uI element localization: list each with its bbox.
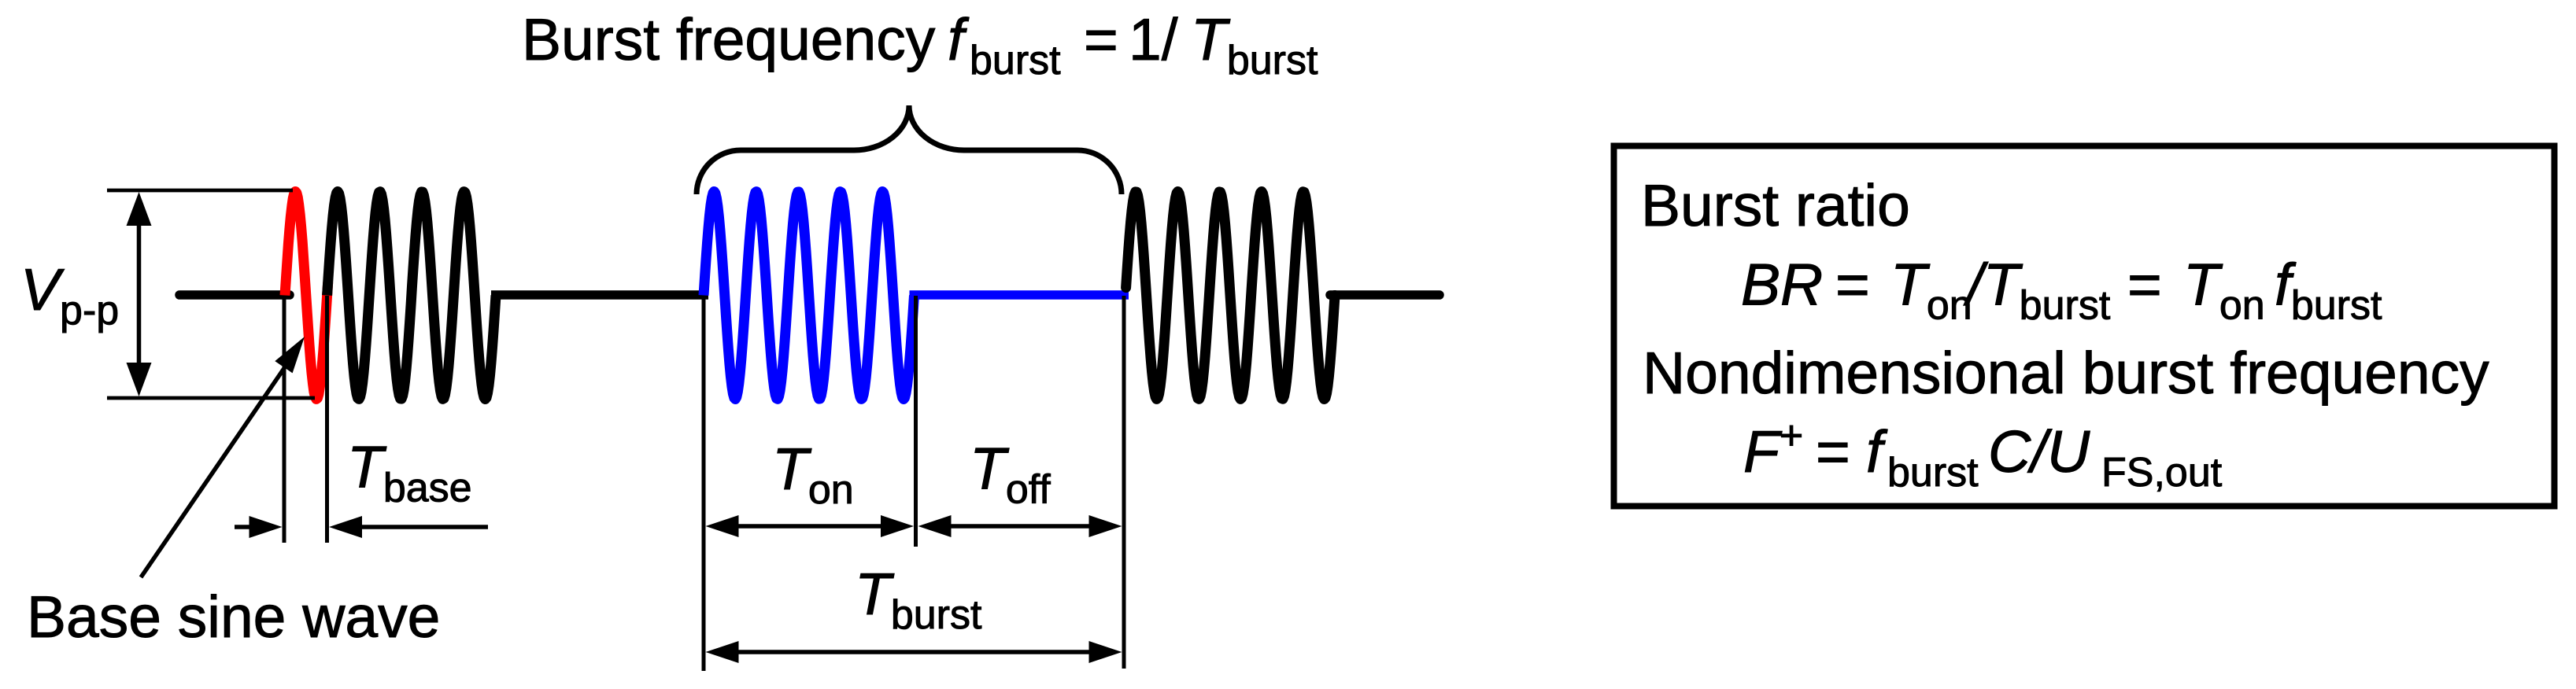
Base sine wave pointer arrow [141, 360, 290, 577]
T_off double arrow [944, 524, 1096, 529]
wire: blue baseline segment (T_off) [910, 290, 1129, 300]
formula box [1614, 146, 2555, 507]
svg-text:Burst frequencyfburst=1/Tburst: Burst frequencyfburst=1/Tburst [522, 6, 1318, 83]
svg-text:Base sine wave: Base sine wave [27, 584, 440, 650]
wire: T_on left extension line (burst 2 start) [702, 296, 706, 671]
wire: baseline segment between burst 1 and burst 2 [491, 290, 708, 300]
node: red base sine wave cycle (first cycle of burst 1) [285, 192, 328, 400]
node: blue burst 2 (5 cycles, T_on) [704, 192, 915, 400]
node: black burst 3 (5 cycles) [1126, 192, 1335, 400]
wire: baseline segment before first burst [179, 290, 290, 300]
T_on double arrow [732, 524, 888, 529]
wire: T_base left extension line [283, 296, 286, 543]
node: black remainder of burst 1 (4 cycles) [327, 192, 496, 400]
wire: T_on/T_off middle extension line [914, 296, 918, 547]
svg-text:Nondimensional burst frequency: Nondimensional burst frequency [1643, 340, 2489, 406]
wire: V_p-p top reference line [107, 189, 293, 193]
brace over burst period [697, 105, 1122, 194]
svg-text:Burst ratio: Burst ratio [1641, 172, 1910, 238]
T_burst double arrow [732, 650, 1096, 654]
T_base left arrow (points right) [235, 525, 255, 529]
wire: V_p-p bottom reference line [107, 396, 315, 400]
wire: T_base right extension line [325, 296, 329, 543]
wire: baseline segment after burst 3 [1330, 290, 1440, 300]
V_p-p vertical double arrow [137, 220, 142, 368]
T_base right arrow (points left) [356, 525, 488, 529]
wire: T_off right extension line (burst 3 start) [1122, 296, 1126, 669]
